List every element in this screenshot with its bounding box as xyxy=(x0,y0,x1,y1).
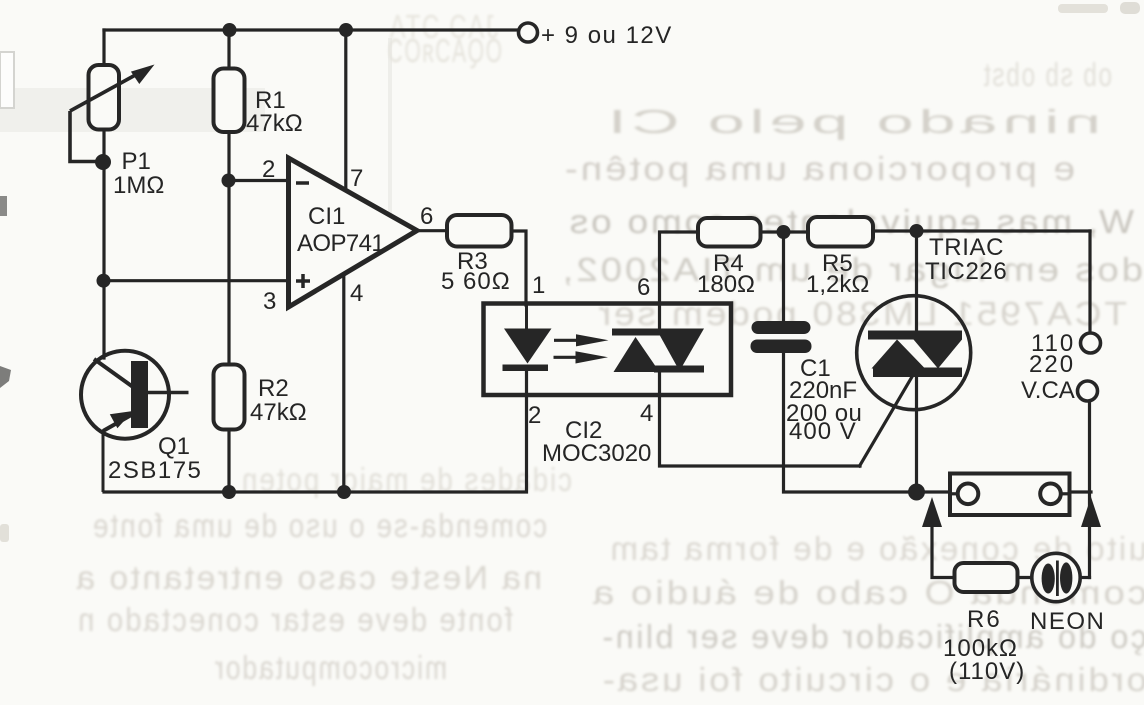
svg-text:comenda-se o uso de uma fonte: comenda-se o uso de uma fonte xyxy=(91,507,547,544)
svg-text:4: 4 xyxy=(350,280,363,307)
svg-text:AOP741: AOP741 xyxy=(297,230,384,257)
arrow right AC xyxy=(1081,497,1101,527)
svg-text:OQAƆᴙOƆ: OQAƆᴙOƆ xyxy=(386,32,502,69)
svg-text:microcomputador: microcomputador xyxy=(213,649,447,686)
svg-text:220: 220 xyxy=(1029,351,1075,378)
svg-text:(110V): (110V) xyxy=(949,658,1025,685)
svg-text:ob sb obst: ob sb obst xyxy=(982,56,1112,93)
svg-text:CI1: CI1 xyxy=(308,203,345,230)
scan mark left edge 2 xyxy=(0,366,11,388)
svg-text:47kΩ: 47kΩ xyxy=(250,399,307,426)
svg-text:MOC3020: MOC3020 xyxy=(542,440,651,467)
wire C1 bottom lead to bottom rail xyxy=(784,352,951,492)
scan artifact white box left edge xyxy=(0,52,14,108)
svg-text:TRIAC: TRIAC xyxy=(929,234,1004,261)
op-amp U1 CI1 xyxy=(289,158,418,307)
wire op-amp pin 7 supply xyxy=(344,30,347,192)
optocoupler CI2 box xyxy=(484,304,732,396)
wire fuse right to vertical xyxy=(1069,490,1091,493)
wire op-amp pin 2 input xyxy=(228,179,290,182)
triac Q TIC226 xyxy=(857,296,971,410)
wire op-amp pin 4 down xyxy=(342,273,345,492)
resistor R6 xyxy=(955,563,1018,592)
resistor R1 xyxy=(214,69,245,133)
wire op-amp output to R3 xyxy=(416,229,448,232)
svg-text:ninado pelo CI: ninado pelo CI xyxy=(603,103,1101,140)
svg-text:400 V: 400 V xyxy=(789,418,857,445)
svg-text:na Neste caso entretanto a: na Neste caso entretanto a xyxy=(74,559,542,596)
svg-text:47kΩ: 47kΩ xyxy=(246,110,303,137)
svg-text:+ 9 ou 12V: + 9 ou 12V xyxy=(541,22,673,49)
faint corner marks xyxy=(1058,4,1108,13)
light arrow 1 xyxy=(554,339,578,342)
node: supply junction dot R1 xyxy=(223,23,237,37)
wire CI2 pin 4 down to gate run xyxy=(660,369,861,466)
svg-text:6: 6 xyxy=(420,203,433,230)
svg-text:fonte deve estar conectado n: fonte deve estar conectado n xyxy=(76,601,513,638)
wire bottom-left rail xyxy=(104,371,527,492)
svg-text:NEON: NEON xyxy=(1030,608,1105,635)
svg-text:e proporciona uma potên-: e proporciona uma potên- xyxy=(562,150,1075,187)
svg-text:1MΩ: 1MΩ xyxy=(113,172,164,199)
resistor R2 xyxy=(214,365,245,430)
wire CI2 pin 6 up and to R4 xyxy=(660,232,700,331)
scan mark left edge 1 xyxy=(0,196,7,216)
wire V.CA drop to neon loop xyxy=(1088,402,1091,578)
wire top rail xyxy=(104,28,518,31)
svg-text:R6: R6 xyxy=(967,606,1002,633)
svg-text:180Ω: 180Ω xyxy=(697,271,755,298)
svg-text:6: 6 xyxy=(637,274,650,301)
wire R1 bottom to R2 top xyxy=(227,132,230,365)
wire op-amp pin 3 input xyxy=(103,279,290,282)
svg-text:P1: P1 xyxy=(122,148,151,175)
terminal +9/12V xyxy=(519,23,538,42)
svg-text:TIC226: TIC226 xyxy=(925,258,1007,285)
svg-text:7: 7 xyxy=(350,165,363,192)
node: supply junction dot pin7 xyxy=(339,23,353,37)
resistor R3 xyxy=(447,215,512,247)
wire triac MT2 down xyxy=(915,376,918,492)
wire right drop to 110 terminal xyxy=(1088,231,1091,332)
svg-text:1,2kΩ: 1,2kΩ xyxy=(806,271,869,298)
node: P1 wiper junction dot xyxy=(95,154,111,170)
node: P1 / pin3 junction dot xyxy=(97,274,111,288)
node: R4/R5/C1 junction dot xyxy=(777,225,791,239)
resistor R4 xyxy=(698,218,761,247)
svg-text:4: 4 xyxy=(640,400,653,427)
svg-text:V.CA: V.CA xyxy=(1021,377,1075,404)
svg-text:1: 1 xyxy=(532,272,545,299)
svg-text:2SB175: 2SB175 xyxy=(108,457,202,484)
wire R6 to neon xyxy=(1017,576,1032,579)
node: bottom wire triac dot xyxy=(908,484,925,501)
svg-text:R2: R2 xyxy=(258,375,289,402)
resistor R5 xyxy=(808,217,873,247)
potentiometer P1 xyxy=(89,65,120,130)
wire R1 top lead xyxy=(227,30,230,69)
wire neon branch left drop to R6 xyxy=(932,505,955,578)
node: bottom rail pin4 dot xyxy=(337,485,351,499)
wire P1 bottom lead down to Q1 xyxy=(102,129,105,358)
wire R3 to CI2 pin 1 xyxy=(511,231,526,305)
scan shading band top-left xyxy=(0,88,265,132)
arrow left AC xyxy=(922,497,942,527)
node: bottom rail R2 dot xyxy=(222,485,236,499)
fuse F1 xyxy=(950,474,1070,516)
terminal V.CA xyxy=(1078,381,1098,401)
terminal 110 xyxy=(1081,333,1101,353)
neon lamp xyxy=(1032,553,1080,601)
node: R5/triac junction dot xyxy=(910,224,924,238)
wire P1 top lead xyxy=(102,30,105,66)
wire R2 bottom lead xyxy=(227,429,230,492)
wire triac MT1 from top xyxy=(915,231,918,331)
transistor Q1 xyxy=(81,351,169,439)
phototriac inside CI2 xyxy=(612,329,663,336)
wire neon to right vertical xyxy=(1080,576,1090,579)
capacitor C1 xyxy=(752,321,811,334)
svg-text:2: 2 xyxy=(262,156,275,183)
wire R5 to triac top corner xyxy=(872,229,1090,232)
node: R1/R2 pin2 junction dot xyxy=(222,174,236,188)
wire R4 to R5 xyxy=(760,230,808,233)
svg-text:ordinária e o circuito foi usa: ordinária e o circuito foi usa- xyxy=(600,661,1144,698)
light arrow 2 xyxy=(554,356,578,359)
wire C1 top lead xyxy=(782,232,785,322)
LED inside CI2 xyxy=(525,304,528,330)
svg-text:3: 3 xyxy=(263,288,276,315)
wire triac gate diagonal xyxy=(860,377,912,466)
svg-text:5 60Ω: 5 60Ω xyxy=(441,268,511,295)
svg-text:Q1: Q1 xyxy=(158,433,190,460)
svg-text:2: 2 xyxy=(528,402,541,429)
